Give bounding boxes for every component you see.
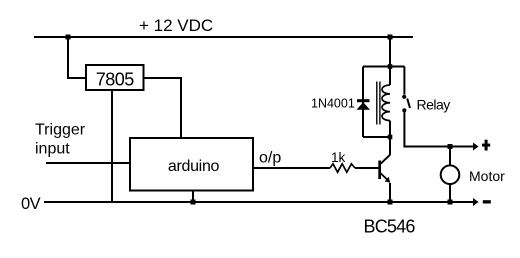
wire trigger input to arduino <box>46 162 130 164</box>
svg-text:Motor: Motor <box>469 168 505 184</box>
wire arduino ground pin <box>192 191 194 203</box>
svg-text:0V: 0V <box>21 195 41 213</box>
transistor Q1 emitter arrowhead <box>385 177 391 183</box>
svg-text:input: input <box>35 141 70 158</box>
transistor Q1 collector lead <box>381 155 391 164</box>
svg-text:1N4001: 1N4001 <box>311 97 355 111</box>
svg-text:7805: 7805 <box>96 70 135 90</box>
node junction on +12V rail at regulator input <box>66 35 71 40</box>
wire coil top stub <box>389 67 391 86</box>
wire 0V rail <box>44 201 474 203</box>
node junction coil top <box>388 64 393 69</box>
svg-text:arduino: arduino <box>168 158 220 175</box>
relay contact upper dot <box>402 95 406 99</box>
wire contact down and right to + terminal <box>404 112 473 146</box>
wire +12V top rail <box>34 36 413 38</box>
wire emitter down to 0V <box>389 183 391 202</box>
wire resistor to transistor base <box>355 167 379 169</box>
transistor Q1 emitter lead <box>381 173 389 180</box>
wire +12V rail down to relay top bar <box>389 37 391 67</box>
wire diode branch left vertical <box>362 67 364 138</box>
wire 7805 ground pin to 0V rail <box>111 90 113 202</box>
wire 7805 output to arduino top <box>144 78 182 138</box>
wire arduino output to resistor <box>253 167 330 169</box>
plus symbol <box>485 140 488 151</box>
transistor Q1 BC546 base bar <box>378 161 381 180</box>
resistor R1 1k zigzag <box>330 164 355 172</box>
node junction coil bottom <box>388 135 393 140</box>
svg-text:Trigger: Trigger <box>35 122 86 139</box>
arrowhead - terminal <box>473 198 479 206</box>
wire relay top bar <box>363 66 405 68</box>
wire collector up to relay coil <box>389 137 391 155</box>
motor M1 circle <box>441 165 460 184</box>
node junction on +12V rail at relay <box>388 35 393 40</box>
node junction motor top <box>448 144 453 149</box>
wire coil bottom stub <box>389 121 391 137</box>
wire relay contact branch down from top bar <box>403 67 405 95</box>
wire relay bottom bar <box>363 136 390 138</box>
regulator 7805 box <box>86 65 144 90</box>
node junction arduino ground on 0V <box>191 200 196 205</box>
diode D1 1N4001 cathode bar <box>357 99 370 102</box>
node junction motor bottom on 0V <box>448 200 453 205</box>
wire from +12V rail to 7805 input <box>68 37 86 78</box>
node junction emitter on 0V <box>388 200 393 205</box>
relay contact arm <box>407 99 410 109</box>
svg-text:BC546: BC546 <box>364 217 416 237</box>
wire motor to 0V rail <box>449 184 451 202</box>
relay coil winding <box>382 85 390 121</box>
relay contact lower dot <box>402 108 406 112</box>
arduino box U1 <box>130 138 253 191</box>
svg-text:Relay: Relay <box>417 97 451 113</box>
svg-text:1k: 1k <box>331 150 346 165</box>
svg-text:o/p: o/p <box>259 150 281 167</box>
svg-text:+ 12 VDC: + 12 VDC <box>139 16 213 35</box>
diode D1 1N4001 triangle <box>357 102 371 110</box>
wire down to motor <box>449 147 451 166</box>
relay coil core lines <box>376 82 378 125</box>
arrowhead + terminal <box>473 143 479 151</box>
minus symbol <box>483 200 491 203</box>
